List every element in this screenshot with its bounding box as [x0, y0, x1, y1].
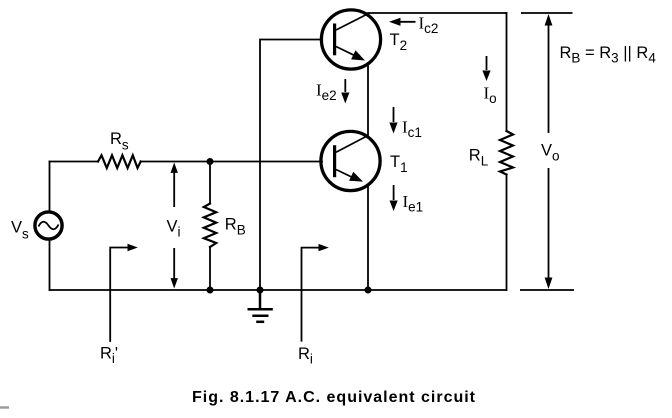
current arrow Ic2 — [389, 18, 416, 26]
resistor RL zigzag — [500, 131, 513, 175]
node D (T1 emitter junction) — [365, 287, 372, 294]
scan artifact mark bottom-left — [0, 406, 9, 408]
measurement arrow Vo with caps — [520, 13, 574, 290]
current arrow Ic1 — [389, 107, 397, 134]
resistor RB top stub — [209, 162, 211, 204]
wire top rail from T2 collector to right rail — [368, 12, 507, 14]
resistor Rs zigzag — [98, 155, 141, 168]
svg-text:Fig. 8.1.17 A.C. equivalent ci: Fig. 8.1.17 A.C. equivalent circuit — [192, 389, 476, 406]
annotation arrow Ri' — [110, 244, 138, 342]
measurement arrow Vi — [171, 163, 178, 289]
wire T2 emitter down to T1 collector — [367, 65, 369, 137]
resistor RB bottom stub — [209, 247, 211, 290]
current arrow Io — [482, 56, 490, 81]
wire horizontal from Rs to T1 base — [141, 161, 322, 163]
wire bottom rail — [50, 289, 507, 291]
current arrow Ie1 — [390, 185, 398, 211]
wire left vertical lower (Vs bottom to rail) — [49, 240, 51, 291]
wire T2 base to left corner and down to ground rail — [260, 40, 322, 291]
wire left vertical upper (corner to Vs top) — [49, 162, 51, 213]
wire right rail upper segment — [506, 13, 508, 131]
transistor T2 — [321, 10, 380, 69]
ground — [248, 290, 273, 322]
source Vs — [35, 212, 62, 239]
wire T1 emitter down to rail — [367, 187, 369, 291]
resistor RB zigzag — [204, 204, 216, 248]
node B (RB bottom junction) — [207, 287, 214, 294]
wire right rail lower segment — [506, 175, 508, 291]
node C (ground junction) — [257, 287, 264, 294]
wire top-left horizontal before Rs — [50, 161, 99, 163]
annotation arrow Ri — [302, 244, 329, 342]
current arrow Ie2 — [341, 79, 349, 104]
node A (RB top junction) — [207, 158, 214, 165]
transistor T1 — [321, 131, 380, 190]
